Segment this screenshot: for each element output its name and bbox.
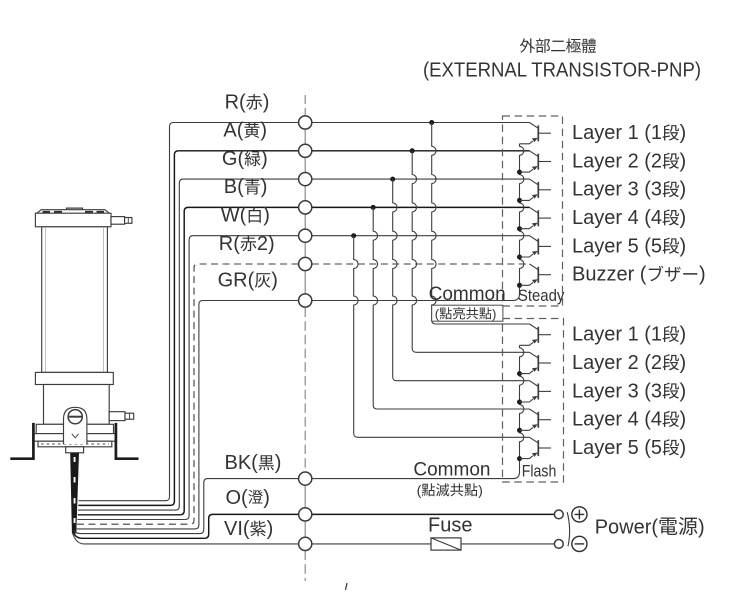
mounting flange — [36, 424, 113, 433]
screw head — [68, 410, 82, 424]
transistor Q6 buzzer — [520, 264, 552, 285]
flash common rail — [520, 345, 524, 458]
transistor Q8 flash L2 — [520, 352, 552, 373]
svg-text:Layer 3 (3: Layer 3 (3 — [572, 380, 662, 402]
transistor Q9 flash L3 — [520, 381, 552, 402]
transistor Q5 steady L5 — [520, 236, 552, 257]
svg-text:Flash: Flash — [522, 461, 557, 480]
fuse F1 — [431, 538, 461, 550]
connector pin A — [299, 144, 312, 157]
svg-text:): ) — [261, 176, 268, 198]
steady dashed box — [503, 116, 563, 306]
rail junction dot — [517, 400, 522, 405]
minus terminal symbol — [572, 536, 587, 551]
svg-text:): ) — [680, 207, 687, 229]
svg-text:Fuse: Fuse — [428, 515, 472, 537]
svg-text:): ) — [263, 487, 270, 509]
rail junction dot — [517, 226, 522, 231]
rail junction dot — [517, 255, 522, 260]
transistor Q2 steady L2 — [520, 151, 552, 172]
svg-text:Layer 4 (4: Layer 4 (4 — [572, 409, 662, 431]
rail junction dot — [517, 283, 522, 288]
transistor Q10 flash L4 — [520, 409, 552, 430]
wire VI left run — [72, 533, 298, 544]
svg-text:VI(: VI( — [224, 518, 250, 540]
svg-text:): ) — [267, 518, 274, 540]
connector arc — [567, 512, 569, 546]
wire O left bundle run — [73, 514, 299, 538]
mounting bracket left — [10, 423, 33, 459]
cap center tab — [67, 208, 83, 210]
svg-text:Layer 5 (5: Layer 5 (5 — [572, 437, 662, 459]
svg-text:GR(: GR( — [218, 269, 255, 291]
tap wire R down to flash layer — [432, 123, 530, 325]
svg-text:): ) — [680, 352, 687, 374]
transistor Q3 steady L3 — [520, 179, 552, 200]
wire B to steady transistor — [312, 206, 530, 208]
svg-text:): ) — [680, 122, 687, 144]
wire R left bundle run — [79, 123, 299, 501]
svg-text:B(: B( — [224, 176, 244, 198]
flash dashed box — [503, 319, 564, 483]
pole mount capsule — [64, 407, 87, 444]
cable (thick, with sheath dashes) — [70, 453, 79, 534]
wire G to steady transistor — [312, 178, 530, 180]
connector pin GR — [299, 294, 312, 307]
svg-text:G(: G( — [222, 148, 245, 170]
svg-text:R(: R( — [225, 91, 246, 113]
junction dot on wire W — [351, 233, 356, 238]
svg-text:): ) — [263, 91, 270, 113]
svg-text:Layer 1 (1: Layer 1 (1 — [572, 122, 662, 144]
wire R to steady transistor — [312, 122, 530, 124]
svg-text:O(: O( — [226, 487, 249, 509]
signal tower body group — [34, 208, 134, 453]
svg-text:(: ( — [417, 483, 422, 499]
rail junction dot — [517, 428, 522, 433]
transistor Q11 flash L5 — [520, 437, 552, 458]
svg-text:A(: A( — [223, 120, 243, 142]
tower body — [42, 227, 108, 373]
tower cap — [35, 213, 111, 227]
tower base block — [44, 385, 110, 425]
svg-text:Steady: Steady — [518, 286, 565, 305]
svg-text:): ) — [680, 380, 687, 402]
svg-text:): ) — [680, 409, 687, 431]
transistor Q4 steady L4 — [520, 207, 552, 228]
cap nozzle — [111, 217, 125, 225]
svg-text:): ) — [680, 235, 687, 257]
wire R2 left bundle run — [77, 264, 299, 524]
svg-text:Common: Common — [429, 284, 506, 305]
connector pin VI — [299, 537, 312, 550]
svg-text:BK(: BK( — [225, 452, 259, 474]
svg-text:): ) — [478, 483, 483, 499]
tower lower band — [35, 372, 113, 384]
wire G left bundle run — [78, 179, 299, 510]
steady common rail — [520, 144, 524, 285]
junction dot on wire B — [371, 205, 376, 210]
wire BK to flash common rail — [312, 459, 520, 479]
plus terminal symbol — [572, 507, 587, 522]
wire VI to power minus — [312, 543, 555, 545]
rail junction dot — [517, 371, 522, 376]
tap wire B down to flash layer — [373, 207, 529, 409]
svg-text:W(: W( — [221, 205, 247, 227]
svg-text:Common: Common — [413, 459, 490, 480]
svg-text:): ) — [698, 517, 705, 539]
wire O to power plus — [312, 513, 555, 515]
wire BK left bundle run — [74, 479, 299, 534]
svg-text:Buzzer (: Buzzer ( — [572, 264, 647, 286]
junction dot on wire R — [429, 120, 434, 125]
connector pin O — [299, 508, 312, 521]
svg-text:): ) — [271, 269, 278, 291]
power terminal circle minus wire end — [554, 540, 563, 549]
svg-text:Layer 4 (4: Layer 4 (4 — [572, 207, 662, 229]
connector pin BK — [299, 472, 312, 485]
svg-text:): ) — [263, 205, 270, 227]
svg-text:Layer 2 (2: Layer 2 (2 — [572, 352, 662, 374]
wire A left bundle run — [78, 151, 298, 506]
svg-text:R(: R( — [219, 233, 240, 255]
box around 點亮共點 — [432, 305, 503, 321]
cap rim dashes — [43, 211, 105, 213]
wire A to steady transistor — [312, 150, 530, 152]
rail junction dot — [517, 170, 522, 175]
svg-text:): ) — [680, 437, 687, 459]
connector boundary dashed line — [304, 95, 306, 110]
wire B left bundle run — [78, 207, 299, 514]
wire W to steady transistor — [312, 235, 530, 237]
mounting bracket right — [116, 423, 139, 459]
connector pin R2 — [299, 257, 312, 270]
tap wire A down to flash layer — [412, 151, 529, 352]
base nozzle right — [109, 412, 125, 421]
svg-text:): ) — [699, 264, 706, 286]
svg-text:2): 2) — [257, 233, 275, 255]
power terminal circle plus wire end — [554, 510, 563, 519]
svg-text:): ) — [261, 148, 268, 170]
tick mark at bottom — [346, 583, 348, 590]
svg-text:(: ( — [435, 306, 440, 321]
rail junction dot — [517, 456, 522, 461]
cable gland nub — [66, 447, 84, 453]
svg-text:): ) — [680, 324, 687, 346]
svg-text:Layer 1 (1: Layer 1 (1 — [572, 324, 662, 346]
svg-text:): ) — [680, 179, 687, 201]
svg-text:Layer 3 (3: Layer 3 (3 — [572, 179, 662, 201]
connector pin R — [299, 116, 312, 129]
svg-text:): ) — [275, 452, 282, 474]
tap wire W down to flash layer — [354, 236, 530, 438]
junction dot on wire G — [390, 177, 395, 182]
title 外部二極體 — [520, 38, 535, 53]
connector pin B — [299, 201, 312, 214]
transistor Q7 flash L1 — [520, 324, 552, 345]
svg-text:): ) — [260, 120, 267, 142]
tower cap top face — [37, 210, 110, 214]
connector pin G — [299, 173, 312, 186]
tap wire G down to flash layer — [393, 179, 530, 381]
wire R2 (dashed) to buzzer transistor — [312, 263, 530, 265]
wire W left bundle run — [77, 236, 298, 520]
junction dot on wire A — [410, 148, 415, 153]
svg-text:(EXTERNAL TRANSISTOR-PNP): (EXTERNAL TRANSISTOR-PNP) — [423, 59, 701, 82]
svg-text:Layer 2 (2: Layer 2 (2 — [572, 150, 662, 172]
connector pin W — [299, 229, 312, 242]
wire GR to steady common rail — [312, 285, 520, 300]
svg-text:Layer 5 (5: Layer 5 (5 — [572, 235, 662, 257]
svg-text:): ) — [492, 306, 496, 321]
rail junction dot — [517, 198, 522, 203]
svg-text:): ) — [680, 150, 687, 172]
svg-text:Power(: Power( — [595, 517, 659, 539]
wire GR left bundle run — [77, 301, 299, 529]
transistor Q1 steady L1 — [520, 123, 552, 144]
